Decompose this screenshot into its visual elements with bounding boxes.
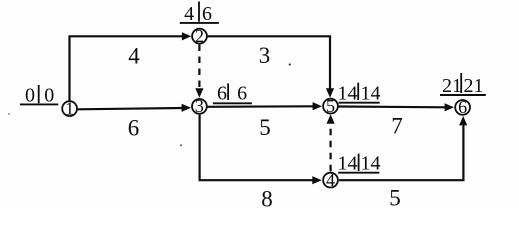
- wire edge 1-2 (elbow up then right): [70, 36, 183, 100]
- node time label 4|6 at node 2: [180, 2, 219, 26]
- svg-text:6: 6: [217, 82, 227, 104]
- node time label 0|0 at node 1: [20, 85, 58, 107]
- svg-text:14: 14: [338, 153, 358, 175]
- svg-text:6: 6: [202, 3, 212, 25]
- node 4: [323, 170, 338, 190]
- node 3: [192, 96, 207, 116]
- svg-text:14: 14: [338, 82, 358, 104]
- arrowhead into node 4 left: [312, 176, 321, 184]
- svg-text:6: 6: [237, 82, 247, 104]
- svg-text:21: 21: [442, 75, 462, 97]
- svg-text:6: 6: [458, 97, 467, 117]
- svg-text:5: 5: [259, 115, 271, 140]
- svg-text:5: 5: [326, 96, 335, 116]
- arrowhead into node 3 left: [182, 104, 191, 112]
- svg-text:0: 0: [44, 85, 54, 107]
- svg-text:2: 2: [195, 26, 204, 46]
- svg-text:3: 3: [259, 43, 271, 68]
- svg-text:14: 14: [361, 153, 381, 175]
- arrowhead into node 6 bottom: [459, 116, 467, 125]
- svg-text:4: 4: [326, 170, 335, 190]
- svg-text:21: 21: [464, 75, 484, 97]
- svg-text:4: 4: [128, 44, 140, 69]
- arrowhead into node 2: [182, 32, 191, 40]
- node time label 14|14 at node 5: [338, 82, 381, 104]
- arrowhead into node 5 bottom: [327, 114, 335, 123]
- node time label 6|6 at node 3: [213, 82, 252, 104]
- node 1: [62, 98, 77, 118]
- wire edge 5-6: [339, 105, 446, 108]
- node 6: [455, 97, 470, 117]
- node time label 14|14 at node 4: [338, 153, 381, 175]
- svg-text:5: 5: [389, 186, 401, 209]
- svg-text:8: 8: [261, 187, 273, 209]
- svg-text:0: 0: [25, 85, 35, 107]
- wire edge 3-4 (down then right): [200, 115, 313, 181]
- dashed dummy edge 4-5: [330, 123, 332, 171]
- speckle dots (scan artifacts): [289, 63, 291, 65]
- node time label 21|21 at node 6: [440, 73, 486, 97]
- node 2: [192, 26, 207, 46]
- svg-text:3: 3: [195, 96, 204, 116]
- arrowhead into node 5 top: [326, 88, 334, 97]
- arrowhead into node 5 left: [313, 102, 322, 110]
- wire edge 3-5: [207, 105, 313, 108]
- arrowhead into node 6 left: [445, 103, 454, 111]
- svg-text:7: 7: [391, 114, 403, 139]
- svg-text:1: 1: [65, 98, 74, 118]
- dashed dummy edge 2-3: [198, 45, 200, 90]
- svg-text:6: 6: [128, 116, 140, 141]
- svg-text:4: 4: [184, 3, 194, 25]
- node 5: [323, 96, 338, 116]
- wire edge 2-5 (right then down): [208, 36, 330, 89]
- svg-text:14: 14: [361, 82, 381, 104]
- wire edge 1-3: [78, 108, 183, 109]
- arrowhead into node 3 top: [195, 88, 203, 97]
- wire edge 4-6 (right then up): [339, 125, 463, 181]
